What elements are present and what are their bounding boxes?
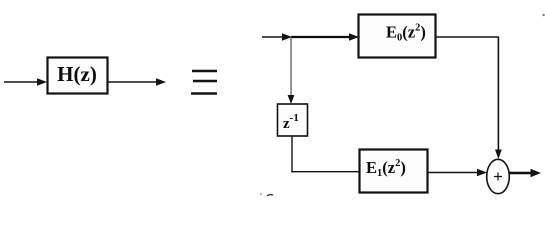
- wire: right diagram input: [262, 36, 285, 38]
- equivalence symbol line 3: [191, 92, 217, 94]
- wire: branch down to delay: [290, 37, 292, 99]
- adder ellipse: [487, 159, 510, 193]
- equivalence symbol line 2: [193, 80, 217, 82]
- svg-text:E0(z2): E0(z2): [386, 23, 426, 44]
- arrowhead into adder top: [495, 150, 502, 160]
- svg-text:E1(z2): E1(z2): [366, 158, 406, 179]
- speck noise bottom left: [267, 195, 273, 196]
- arrowhead into H(z): [37, 78, 47, 86]
- arrowhead on output: [531, 169, 542, 177]
- arrowhead into E0: [349, 33, 359, 41]
- arrowhead into adder left: [477, 169, 487, 177]
- wire: delay to E1: [291, 171, 359, 173]
- delay box z^-1: [278, 104, 308, 136]
- wire: E0 output to corner: [436, 36, 499, 38]
- wire: delay down: [291, 136, 293, 172]
- filter box H1: [48, 58, 108, 94]
- equivalence symbol line 1: [192, 70, 217, 72]
- wire: H(z) output: [108, 81, 158, 83]
- speck dot: [260, 193, 262, 195]
- speck edge right: [542, 14, 544, 16]
- arrowhead on H(z) output: [156, 78, 166, 86]
- wire: input to H(z): [4, 81, 40, 83]
- label +: [494, 173, 502, 181]
- subfilter box E0: [359, 15, 436, 58]
- subfilter box E1: [360, 150, 428, 193]
- wire: corner down to adder: [497, 37, 499, 152]
- node: junction to branches: [291, 36, 352, 38]
- arrowhead at junction: [282, 33, 292, 41]
- wire: adder output: [509, 172, 533, 174]
- svg-text:H(z): H(z): [57, 62, 97, 86]
- wire: E1 output to adder: [428, 172, 480, 174]
- arrowhead into delay box: [288, 95, 295, 104]
